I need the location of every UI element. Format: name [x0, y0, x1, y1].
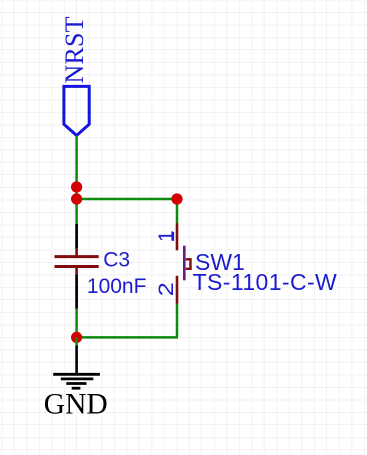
junction dot (bottom, GND): [71, 332, 82, 343]
switch SW1 pin 1: [176, 223, 179, 250]
svg-text:2: 2: [154, 282, 178, 296]
wire: right column top: [176, 199, 179, 223]
wire: bottom junction to GND (green stub): [75, 337, 78, 345]
junction dot (second, wire corner): [71, 193, 82, 204]
ground symbol: [53, 374, 100, 388]
junction dot (top, on NRST column): [71, 181, 82, 192]
capacitor C3 body: [55, 249, 99, 275]
svg-text:GND: GND: [44, 389, 108, 421]
ground GND pin (black lead): [75, 346, 78, 374]
capacitor C3 pin 1 (black lead): [75, 224, 78, 249]
wire: horizontal bottom: [77, 336, 178, 339]
svg-text:100nF: 100nF: [87, 275, 147, 298]
pin number 1: [155, 230, 178, 242]
wire: horizontal top: [77, 198, 177, 201]
svg-text:TS-1101-C-W: TS-1101-C-W: [193, 269, 338, 295]
capacitor C3 pin 2 (black lead): [75, 274, 78, 309]
switch SW1 actuator bar: [183, 246, 186, 281]
svg-text:1: 1: [155, 230, 178, 242]
svg-text:NRST: NRST: [60, 16, 89, 83]
switch SW1 button knob: [186, 259, 191, 269]
wire: NRST flag down to junction: [75, 136, 78, 225]
net port NRST (flag): [64, 86, 89, 135]
wire: right column bottom: [176, 304, 179, 338]
junction dot (top right, switch column): [171, 193, 182, 204]
switch SW1 pin 2: [176, 276, 179, 304]
wire: capacitor to bottom junction: [75, 309, 78, 338]
svg-text:C3: C3: [103, 249, 130, 272]
